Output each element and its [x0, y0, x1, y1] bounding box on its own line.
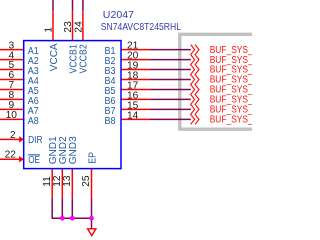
pin 10 stub A8	[0, 118, 24, 120]
OE overline	[28, 154, 40, 155]
GND1 net wire down	[51, 198, 53, 218]
pin 17 stub	[121, 89, 150, 91]
ground symbol	[88, 229, 96, 236]
svg-text:13: 13	[62, 175, 73, 187]
pin 3 stub A1	[0, 49, 24, 51]
pin 14 stub	[121, 118, 150, 120]
junction EP	[89, 216, 94, 221]
pin 22 stub OE	[0, 158, 23, 160]
wire B4 net	[150, 79, 191, 81]
svg-text:25: 25	[81, 175, 92, 187]
pin 22 arrowhead	[19, 156, 23, 163]
svg-text:U2047: U2047	[103, 9, 134, 21]
junction GND2	[60, 216, 65, 221]
pin 11 stub GND1	[51, 169, 53, 199]
svg-text:GND3: GND3	[68, 136, 79, 164]
pin 23 stub VCCB1	[72, 11, 74, 40]
svg-text:VCCB1: VCCB1	[68, 44, 79, 74]
pin 21 stub	[121, 49, 150, 51]
pin 20 stub	[121, 59, 150, 61]
pin 4 stub A2	[0, 59, 24, 61]
bus area gray box	[180, 34, 252, 129]
svg-text:22: 22	[5, 150, 17, 161]
svg-text:VCCB2: VCCB2	[79, 44, 90, 74]
pin 5 stub A3	[0, 69, 24, 71]
svg-text:24: 24	[73, 21, 84, 33]
pin 1 stub VCCA	[52, 11, 54, 40]
pin 19 stub	[121, 69, 150, 71]
svg-text:2: 2	[10, 130, 16, 141]
pin 2 arrowhead	[19, 136, 23, 143]
VCCB2 net wire top	[82, 0, 84, 11]
wire B7 net	[150, 108, 191, 110]
pin 6 stub A4	[0, 79, 24, 81]
VCCB1 net wire top	[72, 0, 74, 11]
svg-text:B8: B8	[105, 116, 116, 127]
bus ripper zigzag outer	[195, 45, 199, 125]
svg-text:EP: EP	[87, 152, 98, 164]
svg-text:SN74AVC8T245RHL: SN74AVC8T245RHL	[101, 21, 181, 33]
svg-text:OE: OE	[28, 155, 40, 166]
wire B5 net	[150, 89, 191, 91]
bus ripper zigzag inner	[191, 45, 195, 125]
svg-text:VCCA: VCCA	[49, 43, 60, 71]
wire B1 net	[150, 49, 191, 51]
svg-text:10: 10	[6, 110, 18, 121]
pin 12 stub GND2	[61, 169, 63, 199]
pin 8 stub A6	[0, 98, 24, 100]
wire B6 net	[150, 98, 191, 100]
junction GND3	[70, 216, 75, 221]
VCCA net wire top	[52, 0, 54, 11]
pin 24 stub VCCB2	[82, 11, 84, 40]
svg-text:DIR: DIR	[28, 135, 42, 146]
pin 18 stub	[121, 79, 150, 81]
pin 2 stub DIR	[0, 138, 23, 140]
pin 13 stub GND3	[71, 169, 73, 199]
pin 25 stub EP	[91, 169, 93, 199]
svg-text:23: 23	[63, 21, 74, 33]
svg-text:A8: A8	[28, 116, 39, 127]
pin 7 stub A5	[0, 89, 24, 91]
svg-text:BUF_SYS__: BUF_SYS__	[210, 114, 252, 126]
chip body U2047	[24, 41, 121, 169]
ground bus wire	[52, 217, 92, 219]
pin 9 stub A7	[0, 108, 24, 110]
pin 16 stub	[121, 98, 150, 100]
GND3 net wire down	[71, 198, 73, 218]
GND2 net wire down	[61, 198, 63, 218]
wire B2 net	[150, 59, 191, 61]
svg-text:1: 1	[43, 27, 54, 33]
pin 15 stub	[121, 108, 150, 110]
wire B8 net	[150, 118, 191, 120]
EP net wire down	[91, 198, 93, 229]
svg-text:14: 14	[127, 111, 139, 122]
wire B3 net	[150, 69, 191, 71]
